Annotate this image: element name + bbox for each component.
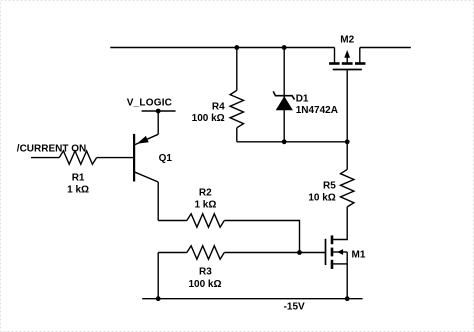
svg-text:R3: R3 xyxy=(199,266,212,277)
M1 source lead xyxy=(332,263,347,265)
svg-text:1N4742A: 1N4742A xyxy=(296,105,338,116)
M1 gate bar xyxy=(325,239,327,265)
wire M2 source drop xyxy=(359,48,361,64)
svg-text:/CURRENT ON: /CURRENT ON xyxy=(17,143,86,154)
resistor R2 xyxy=(187,214,224,227)
resistor R1 xyxy=(59,151,96,164)
Q1 base bar xyxy=(133,134,135,182)
wire M1 right vertical to bottom rail xyxy=(346,252,348,299)
node junction dot R4 top xyxy=(234,45,239,50)
M2 channel bar middle xyxy=(342,62,353,65)
wire R5 top lead xyxy=(346,142,348,170)
node junction dot D1 bottom xyxy=(282,139,287,144)
wire Q1 collector vertical xyxy=(157,182,159,221)
svg-text:R1: R1 xyxy=(72,173,85,184)
resistor R3 xyxy=(187,246,224,259)
wire R4 bottom lead xyxy=(236,128,238,142)
node junction dot M1 gate xyxy=(297,250,302,255)
transistor Q1 xyxy=(134,111,158,221)
svg-text:-15V: -15V xyxy=(284,302,305,313)
wire input lead xyxy=(31,157,59,159)
M1 channel bar top xyxy=(331,235,334,244)
svg-text:R2: R2 xyxy=(199,188,212,199)
transistor M2 xyxy=(329,48,365,70)
wire R1 to Q1 base xyxy=(97,157,135,159)
D1 zener cathode bar xyxy=(273,91,294,99)
svg-text:D1: D1 xyxy=(296,94,309,105)
svg-text:M2: M2 xyxy=(340,35,354,46)
M2 bulk arrow xyxy=(346,55,348,64)
node junction dot R3 bottom rail xyxy=(156,296,161,301)
node junction dot M1 source rail xyxy=(345,296,350,301)
node junction dot D1 top xyxy=(282,45,287,50)
svg-text:M1: M1 xyxy=(352,249,366,260)
svg-text:10 kΩ: 10 kΩ xyxy=(308,192,335,203)
svg-text:1 kΩ: 1 kΩ xyxy=(194,200,216,211)
wire zener sub-rail xyxy=(237,141,347,143)
wire R3 left vertical to bottom rail xyxy=(157,253,159,299)
wire top rail left xyxy=(110,47,334,49)
Q1 emitter diagonal xyxy=(134,134,158,145)
node junction dot V_LOGIC xyxy=(156,109,161,114)
transistor M1 xyxy=(326,235,348,298)
wire R2 left lead from collector xyxy=(158,220,187,222)
wire top rail right xyxy=(360,47,411,49)
diode D1 xyxy=(273,48,294,142)
svg-text:R5: R5 xyxy=(323,181,336,192)
wire D1 vertical xyxy=(283,48,285,142)
svg-text:Q1: Q1 xyxy=(159,153,173,164)
node V_LOGIC rail xyxy=(142,110,176,112)
wire R5 bottom lead to M1 drain xyxy=(332,207,347,240)
D1 anode triangle xyxy=(276,96,293,110)
Q1 emitter arrow xyxy=(137,136,149,144)
M1 channel bar middle xyxy=(331,248,334,257)
svg-text:100 kΩ: 100 kΩ xyxy=(188,279,221,290)
M1 channel bar bottom xyxy=(331,260,334,269)
M2 channel bar right xyxy=(355,62,365,65)
wire R4 top lead xyxy=(236,48,238,91)
wire R2 right to gate node xyxy=(224,221,299,253)
Q1 collector diagonal xyxy=(134,172,158,182)
wire R3 left lead xyxy=(158,252,187,254)
resistor R4 xyxy=(230,90,243,127)
svg-text:V_LOGIC: V_LOGIC xyxy=(127,98,172,109)
svg-text:100 kΩ: 100 kΩ xyxy=(192,113,225,124)
wire M2 gate down to zener rail xyxy=(346,70,348,142)
svg-text:1 kΩ: 1 kΩ xyxy=(67,184,89,195)
M1 bulk arrow xyxy=(332,251,347,253)
wire bottom rail -15V xyxy=(142,298,362,300)
M2 channel bar left xyxy=(329,62,340,65)
wire M2 drain drop xyxy=(334,48,336,64)
wire R3 right to M1 gate xyxy=(224,252,325,254)
resistor R5 xyxy=(341,170,354,207)
wire Q1 emitter vertical xyxy=(157,111,159,134)
svg-text:R4: R4 xyxy=(212,102,225,113)
node junction dot R5 top xyxy=(345,139,350,144)
M2 gate bar xyxy=(333,69,362,71)
